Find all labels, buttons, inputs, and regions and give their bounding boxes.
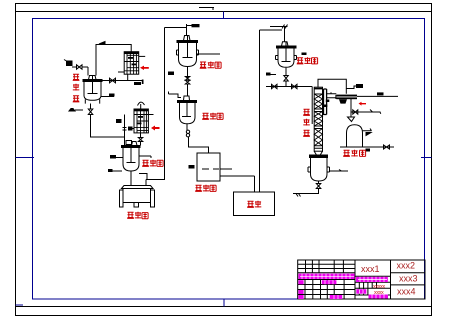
svg-text:xxx2: xxx2: [397, 261, 416, 271]
svg-text:xxx4: xxx4: [397, 287, 416, 297]
svg-text:xxx1: xxx1: [361, 264, 380, 274]
svg-text:xxx3: xxx3: [399, 274, 418, 284]
svg-text:xxxx: xxxx: [374, 290, 384, 296]
